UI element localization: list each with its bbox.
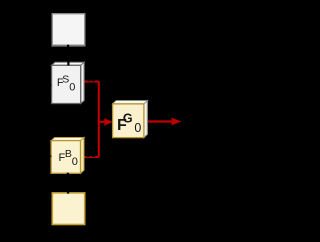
svg-text:0: 0 — [69, 82, 75, 94]
arrow red out of FG0 — [147, 118, 182, 126]
right face — [81, 138, 85, 174]
block FG0 (3D box, cream with gray sides) — [113, 101, 148, 138]
front face — [51, 141, 80, 174]
wire red elbow from FB0 to junction — [84, 120, 99, 157]
front face — [52, 65, 81, 103]
svg-text:0: 0 — [72, 156, 78, 168]
wire black arrowhead tick on FB0 left — [48, 154, 52, 158]
right face — [81, 62, 85, 103]
block FB0 (3D box, cream) — [51, 138, 84, 174]
wire black tick below top box — [67, 45, 69, 48]
top face — [52, 62, 85, 65]
right face — [144, 101, 148, 138]
top face — [51, 138, 84, 141]
wire black tick above bottom box — [67, 191, 69, 194]
svg-text:G: G — [123, 112, 133, 126]
box input image (top, white) — [52, 14, 85, 46]
box input mask (bottom, cream) — [52, 193, 84, 225]
wire black dashes over red line (FB0 output) — [86, 155, 90, 157]
svg-text:S: S — [62, 74, 69, 86]
wire black arrowhead tick on FS0 left — [48, 83, 52, 87]
wire black tick below FB0 — [67, 173, 69, 176]
wire black arrowhead tick on FS0 top — [67, 61, 69, 65]
arrow red into FG0 — [98, 118, 113, 126]
wire black dashes over red line (FS0 output) — [88, 80, 91, 82]
top face — [113, 101, 148, 104]
svg-text:0: 0 — [134, 121, 141, 135]
top face highlight — [114, 101, 148, 103]
block FS0 (3D box, gray) — [52, 62, 85, 103]
front face — [113, 104, 144, 138]
wire red elbow from FS0 to junction — [84, 82, 99, 123]
